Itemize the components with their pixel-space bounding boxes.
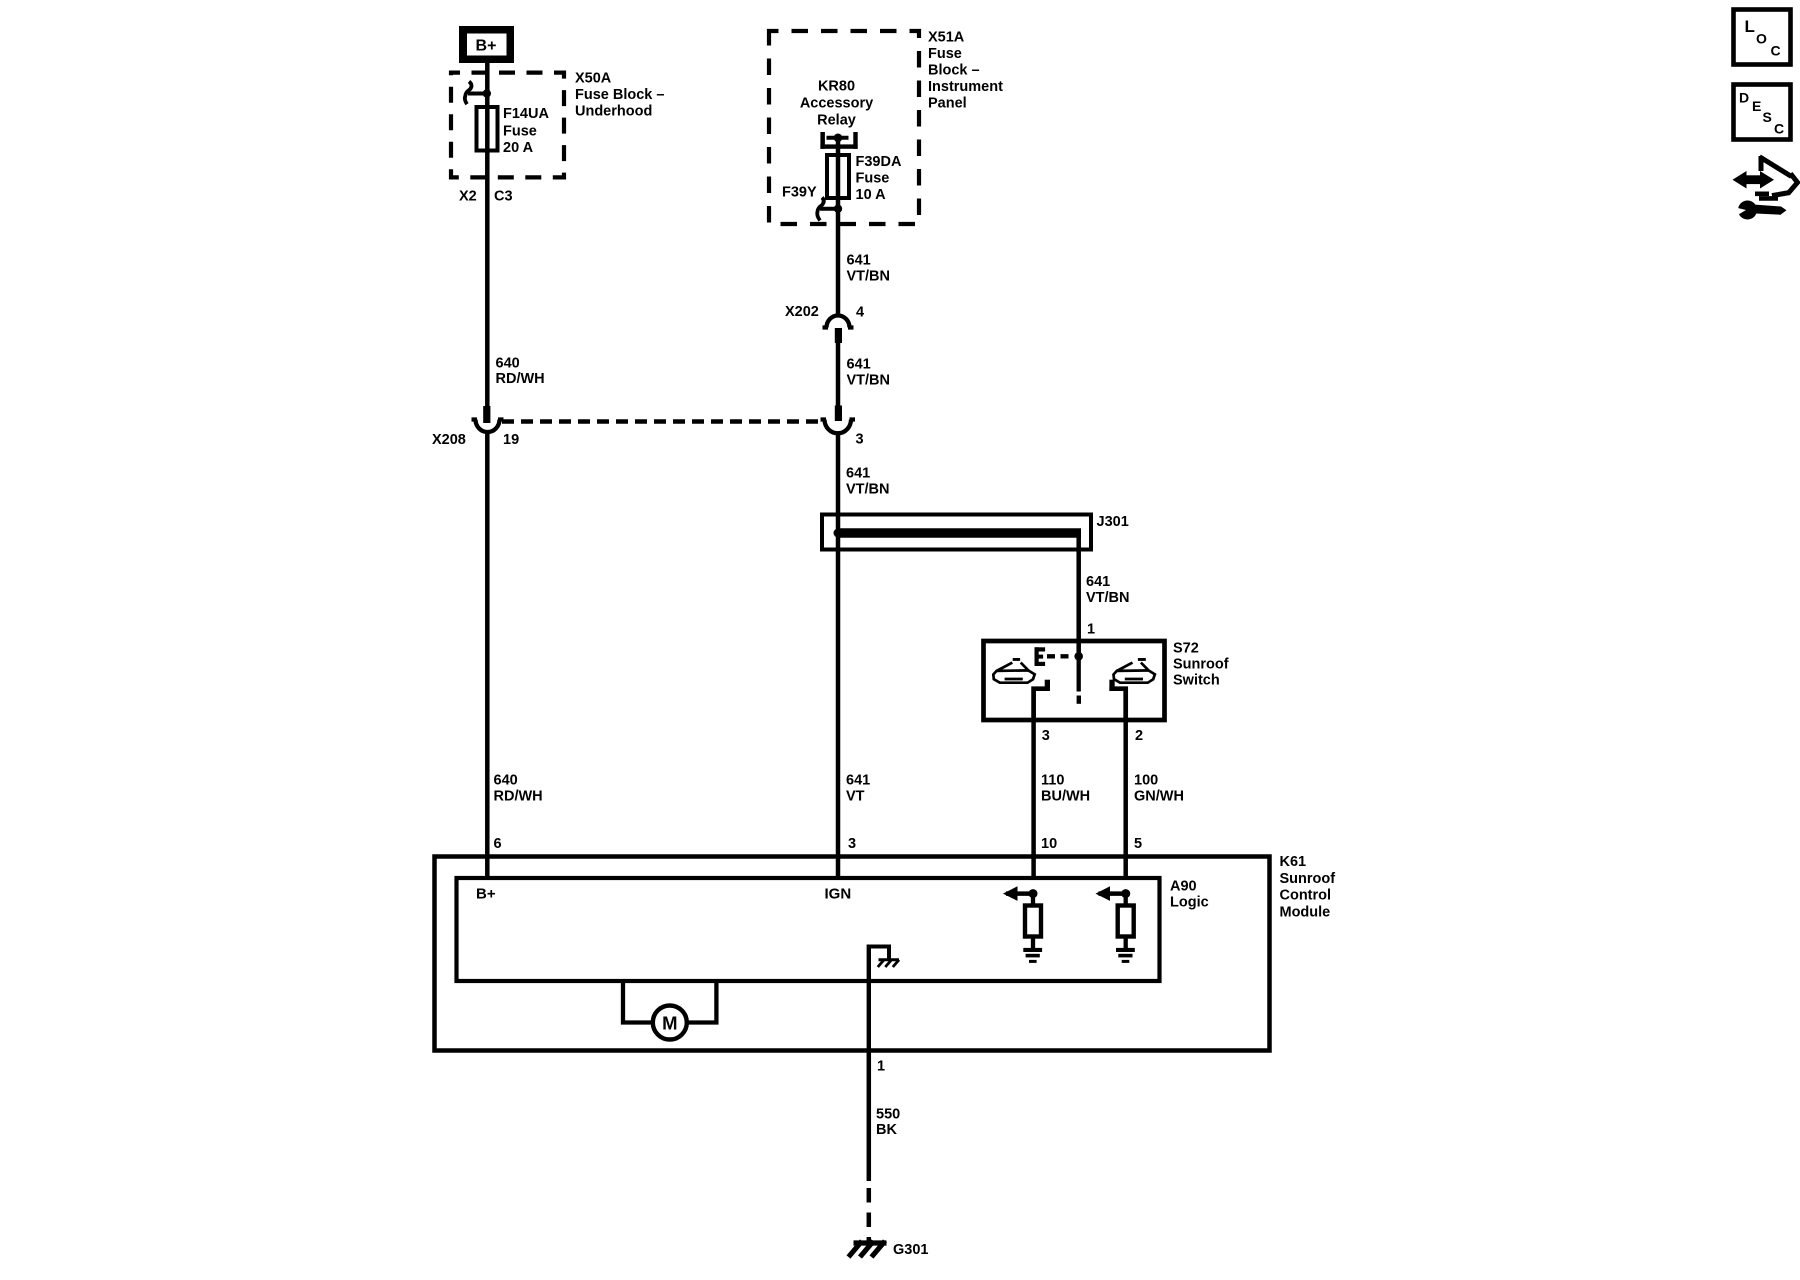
svg-text:RD/WH: RD/WH bbox=[496, 371, 545, 387]
svg-text:VT/BN: VT/BN bbox=[846, 482, 890, 498]
svg-text:20 A: 20 A bbox=[503, 140, 534, 156]
svg-text:J301: J301 bbox=[1097, 514, 1129, 530]
label 641 VT/BN first bbox=[847, 253, 891, 285]
svg-text:X50A: X50A bbox=[575, 71, 612, 87]
right switch contact and wire to pin 2 bbox=[1109, 680, 1125, 879]
fuse block X50A dashed box bbox=[451, 73, 564, 178]
svg-text:10 A: 10 A bbox=[856, 187, 887, 203]
svg-text:641: 641 bbox=[846, 772, 870, 788]
svg-text:2: 2 bbox=[1135, 728, 1143, 744]
wire J301 to S72 pin 1 bbox=[1076, 533, 1081, 656]
connector X202 pin 4 (cup and pin) bbox=[823, 316, 854, 344]
junction dot below F39DA bbox=[834, 205, 842, 213]
dashed jumper wire X208 bbox=[502, 419, 824, 424]
svg-text:100: 100 bbox=[1134, 772, 1158, 788]
wire pin 1 to ground bbox=[867, 1053, 872, 1181]
svg-text:4: 4 bbox=[856, 305, 864, 321]
svg-text:M: M bbox=[662, 1012, 677, 1033]
logic module A90 inner box bbox=[457, 878, 1160, 981]
svg-text:Accessory: Accessory bbox=[800, 96, 873, 112]
svg-text:B+: B+ bbox=[476, 886, 496, 903]
internal chassis ground of module bbox=[869, 947, 899, 968]
svg-text:BK: BK bbox=[876, 1122, 897, 1138]
svg-text:L: L bbox=[1745, 17, 1755, 36]
svg-text:C3: C3 bbox=[494, 189, 513, 205]
label 641 VT/BN third bbox=[846, 466, 890, 498]
label F14UA Fuse 20 A bbox=[503, 106, 549, 156]
switch common contact: dot, blade and E indicator bbox=[1047, 652, 1083, 704]
label X51A Fuse Block - Instrument Panel bbox=[928, 30, 1003, 112]
svg-text:VT/BN: VT/BN bbox=[847, 269, 891, 285]
svg-text:Control: Control bbox=[1280, 888, 1332, 904]
svg-text:Fuse: Fuse bbox=[856, 171, 890, 187]
svg-text:19: 19 bbox=[503, 432, 519, 448]
label X50A Fuse Block - Underhood bbox=[575, 71, 664, 120]
svg-text:S72: S72 bbox=[1173, 641, 1199, 657]
svg-text:Fuse: Fuse bbox=[503, 124, 537, 140]
wire from B+ to fuse F14UA bbox=[485, 63, 490, 406]
svg-text:E: E bbox=[1752, 98, 1761, 114]
svg-text:Panel: Panel bbox=[928, 96, 967, 112]
svg-text:641: 641 bbox=[847, 357, 871, 373]
svg-text:640: 640 bbox=[496, 356, 520, 372]
svg-text:10: 10 bbox=[1041, 836, 1057, 852]
svg-text:VT/BN: VT/BN bbox=[1086, 590, 1130, 606]
label 640 RD/WH lower bbox=[494, 772, 543, 804]
svg-text:550: 550 bbox=[876, 1107, 900, 1123]
ground G301 symbol bbox=[849, 1241, 887, 1257]
svg-text:110: 110 bbox=[1041, 772, 1064, 788]
svg-text:Logic: Logic bbox=[1170, 895, 1209, 911]
connector X208 pin 3 (pin and cup) bbox=[821, 406, 856, 434]
svg-text:GN/WH: GN/WH bbox=[1134, 789, 1184, 805]
svg-text:X202: X202 bbox=[785, 304, 819, 320]
relay KR80 contact symbol bbox=[820, 132, 857, 149]
resistor at pin 5 bbox=[1118, 894, 1134, 948]
LOC icon box bbox=[1734, 10, 1791, 65]
label 641 VT lower bbox=[846, 772, 870, 804]
svg-text:X208: X208 bbox=[432, 432, 466, 448]
svg-text:RD/WH: RD/WH bbox=[494, 789, 543, 805]
car icon left (sunroof open) bbox=[993, 658, 1034, 683]
label F39DA Fuse 10 A bbox=[856, 154, 902, 203]
svg-text:Block –: Block – bbox=[928, 63, 980, 79]
E letter bbox=[1035, 647, 1046, 666]
svg-text:640: 640 bbox=[494, 772, 518, 788]
fuse F39DA 10A bbox=[827, 155, 849, 198]
fuse block X51A dashed box bbox=[769, 31, 919, 224]
label 641 VT/BN second bbox=[847, 357, 891, 389]
DESC icon box bbox=[1734, 85, 1791, 140]
svg-text:X2: X2 bbox=[459, 189, 477, 205]
svg-text:Sunroof: Sunroof bbox=[1173, 657, 1229, 673]
arrow at pin 10 input bbox=[1003, 886, 1038, 901]
left switch contact and wire to pin 3 bbox=[1034, 680, 1050, 879]
label A90 Logic bbox=[1170, 879, 1209, 911]
svg-text:Module: Module bbox=[1280, 905, 1331, 921]
svg-text:VT: VT bbox=[846, 789, 865, 805]
B+ power symbol bbox=[459, 26, 514, 63]
svg-text:Sunroof: Sunroof bbox=[1280, 871, 1336, 887]
terminal hook at X50A bbox=[465, 82, 487, 105]
svg-text:K61: K61 bbox=[1280, 854, 1307, 870]
svg-text:F39Y: F39Y bbox=[782, 185, 817, 201]
svg-text:D: D bbox=[1739, 90, 1749, 106]
svg-text:Fuse Block –: Fuse Block – bbox=[575, 87, 664, 103]
label KR80 Accessory Relay bbox=[800, 79, 873, 129]
car icon right (sunroof close) bbox=[1114, 658, 1155, 683]
dashed wire to G301 bbox=[867, 1188, 872, 1244]
label 550 BK bbox=[876, 1107, 900, 1139]
svg-text:641: 641 bbox=[846, 466, 870, 482]
resistor at pin 10 bbox=[1025, 894, 1041, 948]
svg-text:3: 3 bbox=[848, 836, 856, 852]
splice pack J301 bbox=[822, 515, 1091, 550]
label 110 BU/WH bbox=[1041, 772, 1090, 804]
svg-text:VT/BN: VT/BN bbox=[847, 373, 891, 389]
sunroof switch S72 box bbox=[984, 641, 1165, 720]
junction dot at fuse top bbox=[483, 89, 491, 97]
label S72 Sunroof Switch bbox=[1173, 641, 1229, 689]
svg-text:5: 5 bbox=[1134, 836, 1142, 852]
svg-text:Fuse: Fuse bbox=[928, 46, 962, 62]
wire relay to fuse F39DA bbox=[836, 138, 841, 155]
svg-text:S: S bbox=[1763, 109, 1772, 125]
svg-text:3: 3 bbox=[856, 432, 864, 448]
svg-text:F39DA: F39DA bbox=[856, 154, 902, 170]
svg-text:F14UA: F14UA bbox=[503, 106, 549, 122]
svg-text:Underhood: Underhood bbox=[575, 104, 652, 120]
svg-text:BU/WH: BU/WH bbox=[1041, 789, 1090, 805]
svg-text:Instrument: Instrument bbox=[928, 79, 1003, 95]
wire X208-3 down through J301 to K61 pin 3 bbox=[836, 433, 841, 880]
terminal hook F39Y bbox=[817, 198, 838, 221]
label 100 GN/WH bbox=[1134, 772, 1184, 804]
wire X202 to X208 pin 3 bbox=[836, 343, 841, 406]
arrow at pin 5 input bbox=[1096, 886, 1131, 901]
wire fuse F39DA down to X202 bbox=[836, 198, 841, 317]
ground symbol at pin 5 resistor bbox=[1116, 948, 1135, 963]
svg-text:C: C bbox=[1774, 121, 1784, 137]
svg-text:1: 1 bbox=[1087, 622, 1095, 638]
svg-text:641: 641 bbox=[1086, 574, 1110, 590]
svg-text:1: 1 bbox=[877, 1059, 885, 1075]
svg-text:A90: A90 bbox=[1170, 879, 1197, 895]
wrench icon bbox=[1732, 201, 1787, 220]
svg-text:G301: G301 bbox=[893, 1242, 928, 1258]
motor M bbox=[623, 981, 716, 1040]
svg-text:Switch: Switch bbox=[1173, 673, 1220, 689]
svg-text:Relay: Relay bbox=[817, 113, 856, 129]
label K61 Sunroof Control Module bbox=[1280, 854, 1336, 921]
svg-text:O: O bbox=[1756, 31, 1767, 47]
svg-text:641: 641 bbox=[847, 253, 871, 269]
label 640 RD/WH upper bbox=[496, 356, 545, 388]
label 641 VT/BN fourth bbox=[1086, 574, 1130, 606]
fuse F14UA 20A bbox=[477, 107, 498, 151]
svg-text:IGN: IGN bbox=[825, 886, 852, 903]
sunroof control module K61 outer box bbox=[435, 857, 1270, 1051]
svg-text:C: C bbox=[1771, 43, 1781, 59]
svg-text:B+: B+ bbox=[476, 38, 497, 55]
svg-text:6: 6 bbox=[494, 836, 502, 852]
wire X208-19 down to K61 pin 6 bbox=[485, 432, 490, 880]
svg-text:KR80: KR80 bbox=[818, 79, 855, 95]
svg-text:3: 3 bbox=[1042, 728, 1050, 744]
ground symbol at pin 10 resistor bbox=[1023, 948, 1042, 963]
navigation arrows icon bbox=[1733, 156, 1798, 198]
connector X208 pin 19 (pin and cup) bbox=[472, 406, 504, 432]
ground wire inside module to pin 1 bbox=[867, 945, 871, 1054]
svg-text:X51A: X51A bbox=[928, 30, 965, 46]
